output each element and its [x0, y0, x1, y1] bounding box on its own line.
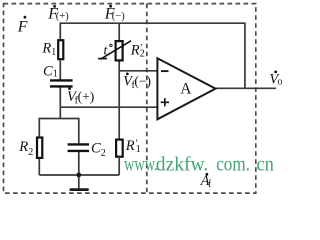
svg-text:o: o	[277, 77, 282, 88]
svg-text:R: R	[18, 139, 28, 155]
svg-text:com.: com.	[216, 152, 250, 175]
svg-text:2: 2	[101, 148, 106, 159]
svg-text:(−): (−)	[134, 73, 151, 88]
svg-text:(+): (+)	[78, 89, 95, 104]
svg-text:dzkfw.: dzkfw.	[156, 152, 208, 175]
svg-text:F: F	[17, 18, 28, 35]
svg-text:2: 2	[140, 49, 145, 60]
svg-text:1: 1	[51, 47, 56, 58]
svg-text:R: R	[41, 41, 51, 57]
svg-text:C: C	[91, 141, 101, 157]
svg-text:2: 2	[28, 147, 33, 158]
svg-text:C: C	[43, 63, 53, 79]
svg-text:www.: www.	[124, 152, 158, 175]
svg-text:R: R	[130, 43, 140, 59]
svg-text:(+): (+)	[56, 11, 69, 22]
svg-text:cn: cn	[256, 152, 274, 175]
svg-text:(−): (−)	[112, 11, 125, 22]
svg-text:A: A	[180, 81, 192, 98]
svg-text:1: 1	[53, 69, 58, 80]
